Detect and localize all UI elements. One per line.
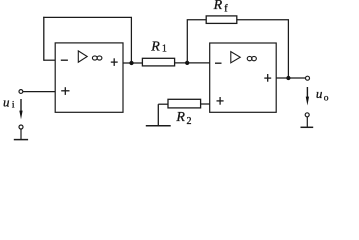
svg-text:u: u	[316, 86, 323, 101]
svg-text:o: o	[324, 93, 329, 103]
wire: node B up to Rf	[187, 20, 206, 63]
U1 non-inverting input plus	[61, 87, 69, 95]
node A: U1 output junction	[129, 61, 133, 65]
svg-text:R: R	[150, 40, 160, 55]
wire: R2 to U2 noninverting input	[201, 103, 210, 105]
U2 infinity symbol	[247, 56, 256, 60]
label uo	[316, 86, 329, 103]
svg-text:R: R	[175, 110, 185, 125]
node B: U2 inverting input junction	[185, 61, 189, 65]
wire: Rf to output node vertical	[237, 20, 289, 78]
wire: R1 to U2 inverting input	[175, 62, 210, 64]
wire: U1 feedback left vertical	[43, 17, 45, 61]
ground (input side)	[14, 129, 28, 139]
output lower terminal circle	[305, 113, 309, 117]
ground (R2 side)	[146, 104, 171, 126]
wire: input terminal to U1 noninverting input	[23, 91, 55, 93]
U2 inverting input minus sign	[215, 62, 222, 64]
svg-text:2: 2	[187, 116, 192, 127]
label R2	[175, 110, 191, 127]
output terminal circle	[306, 76, 310, 80]
svg-text:R: R	[213, 0, 223, 13]
svg-text:i: i	[12, 101, 15, 111]
arrow ui	[19, 99, 22, 119]
label ui	[3, 95, 15, 111]
U2 non-inverting input plus	[217, 97, 224, 105]
label R1	[150, 40, 167, 55]
ground (output side)	[301, 117, 314, 127]
node C: U2 output junction	[286, 76, 290, 80]
U1 infinity symbol	[92, 56, 102, 60]
resistor Rf	[206, 16, 237, 24]
U1 inverting input minus sign	[61, 59, 68, 61]
U1 gain triangle	[78, 51, 87, 62]
op-amp U2 body	[210, 43, 277, 112]
wire: stub into U1 inverting input	[44, 59, 55, 61]
wire: U1 feedback top horizontal	[43, 16, 132, 18]
U2 output polarity plus	[264, 74, 271, 82]
svg-text:1: 1	[162, 44, 167, 55]
wire: U1 feedback right vertical down to output node	[130, 17, 132, 63]
wire: ground to R2	[158, 103, 168, 105]
U2 gain triangle	[231, 52, 240, 63]
resistor R2	[168, 99, 201, 108]
U1 output polarity plus	[111, 58, 118, 66]
svg-text:f: f	[224, 3, 228, 14]
label Rf	[213, 0, 229, 14]
svg-text:u: u	[3, 95, 10, 110]
input terminal circle	[19, 90, 23, 94]
wire: U2 output to output terminal	[276, 77, 305, 79]
arrow uo	[306, 87, 309, 106]
wire: U1 output to R1	[123, 62, 142, 64]
resistor R1	[142, 58, 174, 66]
input lower terminal circle	[19, 125, 23, 129]
op-amp U1 body	[55, 43, 123, 112]
